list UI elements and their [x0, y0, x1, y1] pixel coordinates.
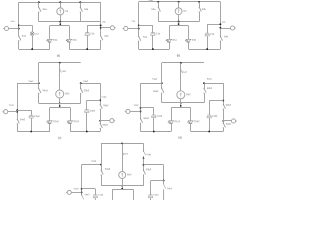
node port V2b (b) — [219, 27, 221, 29]
svg-text:S4b: S4b — [224, 36, 229, 38]
wire stub rail3 to box (c) — [59, 103, 61, 107]
wire box right side (c) — [70, 108, 72, 119]
node rail3 / source (d) — [180, 102, 182, 104]
wire top rail (c) — [39, 62, 81, 64]
switch S1b2 upper — [100, 103, 110, 111]
node port V1b1 (d) — [222, 120, 224, 122]
switch S1a — [18, 32, 26, 50]
label V2b — [222, 22, 227, 24]
switch I1a2 — [60, 63, 67, 73]
svg-text:S4b: S4b — [104, 36, 109, 38]
node top rail / S2b (a) — [79, 1, 81, 3]
lamp L1a — [30, 25, 39, 49]
current source I2a3 — [119, 156, 132, 186]
capacitor C1b1 — [205, 24, 215, 49]
switch S4a2 — [17, 115, 26, 132]
switch S4a1 (d) — [140, 114, 150, 132]
svg-text:S2b: S2b — [84, 9, 89, 11]
wire left vertical (a) — [18, 2, 20, 31]
switch S2a — [38, 2, 47, 22]
switch S1b3 — [143, 143, 152, 158]
wire box right side (a) — [69, 26, 71, 38]
wire bottom rail left (a) — [19, 49, 50, 51]
node rail2 / S2b1 (d) — [203, 82, 205, 84]
node cap wire right (b) — [219, 23, 221, 25]
node rail2 / S2b2 (c) — [80, 82, 82, 84]
switch S2b1 — [199, 2, 207, 22]
node cap right bottom (c) — [86, 131, 88, 133]
wire box left side (c) — [49, 108, 51, 119]
node box top (a) — [59, 23, 61, 25]
svg-text:S1a3: S1a3 — [91, 161, 97, 163]
switch I1a1 (d) — [181, 63, 188, 74]
wire left vertical (b) — [138, 2, 140, 32]
label top rail clipped (b) — [148, 0, 154, 2]
svg-text:C1a3: C1a3 — [98, 195, 104, 197]
node port V1a (a) — [18, 28, 20, 30]
wire S2a2 top stub (c) — [38, 63, 40, 83]
node top rail / source (d) — [180, 62, 182, 64]
wire box top (a) — [50, 25, 70, 27]
wire to capacitor C1b1 (b) — [207, 24, 220, 26]
wire middle rail (b) — [158, 21, 199, 23]
svg-text:S4b3: S4b3 — [167, 188, 173, 190]
switch S1b1 upper (d) — [223, 103, 232, 112]
label S1a1 (d) — [152, 79, 158, 81]
svg-text:S2a3: S2a3 — [105, 169, 111, 171]
wire rail2 left (c) — [17, 83, 39, 85]
wire stub to rail2 right (e) — [143, 159, 145, 166]
wire stub rail3 to box (e) — [122, 186, 124, 190]
port V1b1 — [223, 119, 236, 123]
wire port stub (c) — [100, 111, 102, 122]
capacitor C1b1 (d) — [207, 101, 218, 132]
wire box top (d) — [171, 107, 191, 109]
switch S4b1 — [220, 32, 229, 49]
svg-text:S1a2: S1a2 — [28, 81, 34, 83]
wire to capacitor C1b (a) — [87, 25, 101, 27]
switch S4b2 — [100, 122, 109, 132]
wire right vertical (d) — [223, 83, 225, 102]
node port V1a3 (e) — [81, 191, 83, 193]
label V1a1 (d) — [134, 105, 140, 107]
wire to capacitor C1b3 (e) — [151, 180, 164, 182]
wire to capacitor C1a1 (b) — [139, 25, 153, 27]
node box top (b) — [178, 23, 180, 25]
LED D1a1 (d) — [168, 119, 181, 132]
switch I1a3 — [122, 143, 128, 156]
svg-text:S1b3: S1b3 — [146, 154, 152, 156]
label S1b1 (d) — [207, 79, 213, 81]
wire top rail (b) — [139, 1, 221, 3]
wire S2a1 stub (d) — [161, 63, 163, 83]
switch S4b — [100, 31, 109, 49]
wire rail2 right (e) — [144, 164, 164, 166]
svg-text:S2b2: S2b2 — [207, 88, 213, 90]
svg-text:S2a: S2a — [43, 9, 48, 11]
node cap wire right (d) — [222, 100, 224, 102]
wire rail2 left (d) — [141, 83, 162, 85]
label S1b2 — [83, 81, 89, 83]
port V1b2 — [100, 119, 115, 123]
wire left vertical (e) — [81, 165, 83, 194]
svg-text:S4a2: S4a2 — [20, 119, 26, 121]
wire rail2 left (e) — [82, 164, 102, 166]
svg-text:D1b2: D1b2 — [194, 121, 200, 123]
capacitor C1b — [85, 25, 95, 49]
label V2a — [131, 21, 136, 23]
node cap left bottom (d) — [153, 131, 155, 133]
wire right vertical (e) — [163, 165, 165, 181]
svg-text:S2b: S2b — [202, 9, 207, 11]
node rail2 / S2a1 (d) — [161, 82, 163, 84]
switch S2b3 — [143, 166, 152, 184]
node cap wire right (e) — [163, 180, 165, 182]
port V1a2 — [2, 110, 17, 114]
svg-text:C1a2: C1a2 — [157, 116, 163, 118]
label S1a3 — [91, 161, 97, 163]
capacitor C1a1 — [151, 25, 161, 49]
wire box right side (b) — [188, 26, 190, 37]
LED D1a2 — [47, 119, 60, 132]
label V1b — [102, 22, 107, 24]
svg-text:S4a3: S4a3 — [84, 194, 90, 196]
wire to capacitor C1a3 (e) — [82, 188, 96, 190]
node rail2 / S2a2 (c) — [38, 82, 40, 84]
svg-text:S1a2: S1a2 — [152, 79, 158, 81]
wire right vertical (b) — [220, 2, 222, 32]
port V2b — [220, 26, 235, 30]
wire box left side (e) — [112, 189, 114, 200]
node port V2a (b) — [138, 28, 140, 30]
port V1a3 — [66, 190, 82, 194]
node middle rail / I1a1 (b) — [178, 21, 180, 23]
svg-text:(c): (c) — [58, 136, 61, 140]
wire box left side (a) — [49, 26, 51, 38]
svg-text:S1b2: S1b2 — [83, 81, 89, 83]
label V1a2 — [9, 105, 15, 107]
switch S2b2 — [80, 83, 90, 103]
port V2a — [123, 26, 139, 30]
switch S4a3 — [81, 193, 90, 199]
port V1a1 — [125, 109, 141, 113]
wire box left side (b) — [169, 26, 171, 37]
svg-text:S2a2: S2a2 — [153, 91, 159, 93]
wire port stub (d) — [223, 112, 225, 121]
wire box left side (d) — [171, 108, 173, 119]
wire rail3 (c) — [39, 103, 81, 105]
svg-text:I2a2: I2a2 — [65, 93, 70, 95]
wire box top (e) — [112, 189, 133, 191]
LED D1b1 — [185, 37, 196, 49]
node middle rail / I1a (a) — [59, 21, 61, 23]
wire bottom rail right (b) — [189, 49, 221, 51]
node cap wire right (a) — [100, 24, 102, 26]
LED D1b2 — [67, 119, 80, 132]
wire to capacitor C1b2 (c) — [87, 100, 100, 102]
wire rail2 right (c) — [81, 83, 101, 85]
wire rail3 (d) — [162, 102, 204, 104]
svg-text:S2a: S2a — [151, 9, 156, 11]
svg-text:D1b: D1b — [73, 40, 78, 42]
svg-text:S2b4: S2b4 — [226, 105, 232, 107]
svg-text:V1a3: V1a3 — [74, 188, 80, 190]
wire to capacitor C1b1 (d) — [209, 100, 223, 102]
svg-text:C1b2: C1b2 — [90, 111, 96, 113]
switch S2b1 (d) — [203, 83, 212, 103]
current source I2a2 — [56, 73, 70, 103]
node box top (c) — [59, 105, 61, 107]
node rail2 / S2b3 (e) — [143, 164, 145, 166]
wire stub source to box (b) — [178, 22, 180, 26]
wire right vertical (c) — [100, 83, 102, 103]
capacitor C1b2 — [85, 100, 96, 131]
node box top (e) — [121, 188, 123, 190]
svg-text:S1a: S1a — [143, 37, 148, 39]
node cap right bottom (b) — [206, 48, 208, 50]
wire rail3 right stub (e) — [143, 183, 145, 185]
wire S2a3 stub (e) — [101, 143, 103, 164]
wire right vertical (a) — [100, 2, 102, 31]
node top rail / I1a1 (b) — [178, 1, 180, 3]
node port V1a1 (d) — [140, 110, 142, 112]
caption (b) — [177, 53, 181, 57]
svg-text:I2a3: I2a3 — [127, 174, 132, 176]
switch S4b3 — [164, 181, 173, 200]
svg-text:S1b2: S1b2 — [207, 79, 213, 81]
svg-text:C1b3: C1b3 — [153, 195, 159, 197]
svg-text:C1b: C1b — [90, 33, 95, 35]
caption (c) — [58, 136, 61, 140]
svg-text:S2b3: S2b3 — [146, 169, 152, 171]
capacitor C1a3 — [93, 189, 104, 200]
svg-text:C1b1: C1b1 — [212, 116, 218, 118]
svg-text:C1b: C1b — [210, 34, 215, 36]
current source I2a1 (d) — [177, 74, 191, 103]
wire top rail (a) — [19, 2, 101, 4]
label V1a — [11, 21, 16, 23]
svg-text:V1a2: V1a2 — [9, 105, 15, 107]
svg-text:D1a2: D1a2 — [53, 121, 59, 123]
switch S1a1 — [138, 32, 148, 49]
switch S2a1 — [151, 2, 160, 22]
svg-text:D1b2: D1b2 — [73, 121, 79, 123]
wire top rail (e) — [101, 143, 143, 145]
port V1a — [3, 26, 19, 30]
capacitor C1b3 — [148, 181, 159, 200]
LED D1b — [66, 37, 77, 49]
svg-text:D1a2: D1a2 — [174, 121, 180, 123]
node lamp bottom (a) — [31, 48, 33, 50]
node cap right bottom (d) — [208, 131, 210, 133]
wire rail2 right (d) — [204, 83, 223, 85]
switch S4b1 (d) — [223, 121, 232, 132]
wire stub source to box (a) — [60, 22, 62, 26]
svg-text:(a): (a) — [57, 53, 61, 57]
node port V1a2 (c) — [16, 111, 18, 113]
svg-text:D1b: D1b — [192, 40, 197, 42]
node port V1b2 (c) — [99, 120, 101, 122]
wire bottom rail left (d) — [141, 131, 172, 133]
caption (a) — [57, 53, 61, 57]
node top rail / S2a (a) — [38, 1, 40, 3]
label V1a3 — [74, 188, 80, 190]
caption (d) — [178, 135, 182, 139]
node cap wire right (c) — [99, 99, 101, 101]
node S1b3 bottom (e) — [143, 157, 145, 159]
svg-text:V1a2: V1a2 — [134, 105, 140, 107]
svg-text:S2b2: S2b2 — [84, 90, 90, 92]
switch S2a2 — [38, 83, 48, 103]
node top rail / source (e) — [121, 142, 123, 144]
switch S2a3 — [101, 165, 111, 186]
capacitor C1a1 (d) — [152, 108, 163, 132]
LED D1a — [47, 37, 58, 49]
svg-text:C1a: C1a — [156, 33, 161, 35]
svg-text:S1a1: S1a1 — [148, 0, 154, 2]
svg-text:S2b2: S2b2 — [103, 105, 109, 107]
wire top rail (d) — [162, 62, 204, 64]
svg-text:C1a2: C1a2 — [34, 116, 40, 118]
svg-text:S4a2: S4a2 — [143, 118, 149, 120]
svg-text:D1a: D1a — [53, 40, 58, 42]
wire rail3 (e) — [101, 185, 143, 187]
wire bottom rail right (a) — [69, 49, 100, 51]
node top rail / S2b1 (b) — [198, 1, 200, 3]
node cap branch (c) — [16, 109, 18, 111]
node port V1b (a) — [100, 27, 102, 29]
wire to capacitor C1a2 (c) — [17, 110, 31, 112]
wire to capacitor C1a1 (d) — [141, 107, 154, 109]
wire middle rail (a) — [39, 21, 101, 23]
svg-text:S1a: S1a — [22, 36, 27, 38]
wire stub rail3 to box (d) — [180, 103, 182, 108]
capacitor C1a2 — [29, 110, 40, 131]
wire box right side (e) — [133, 189, 135, 200]
wire to lamp (a) — [19, 25, 32, 27]
node rail2 / S2a3 (e) — [100, 164, 102, 166]
wire left vertical (c) — [17, 83, 19, 115]
svg-text:(d): (d) — [178, 135, 182, 139]
node top rail / I1a (a) — [59, 1, 61, 3]
node cap left bottom (c) — [30, 131, 32, 133]
wire bottom rail right (c) — [70, 131, 100, 133]
LED D1b1 (d) — [188, 119, 201, 132]
node rail3 / source (c) — [59, 102, 61, 104]
wire box top (c) — [50, 107, 70, 109]
port V1b — [101, 26, 116, 30]
wire box right side (d) — [190, 108, 192, 119]
svg-text:(b): (b) — [177, 53, 181, 57]
wire bottom rail left (b) — [139, 49, 170, 51]
svg-text:D1a: D1a — [172, 40, 177, 42]
node cap branch (d) — [140, 107, 142, 109]
svg-text:V1b2: V1b2 — [101, 97, 107, 99]
wire bottom rail left (c) — [17, 131, 50, 133]
node cap left bottom (b) — [152, 48, 154, 50]
current source I1a — [57, 2, 69, 22]
wire bottom rail right (d) — [191, 131, 224, 133]
wire box top (b) — [169, 25, 188, 27]
node rail3 / source (e) — [121, 185, 123, 187]
node top rail / S2a1 (b) — [157, 1, 159, 3]
node cap bottom (a) — [86, 48, 88, 50]
node cap branch (e) — [81, 188, 83, 190]
switch S2b — [80, 2, 89, 22]
switch S2a1 (d) — [153, 83, 164, 103]
node top rail / source (c) — [59, 62, 61, 64]
label S1a2 — [28, 81, 34, 83]
node lamp branch (a) — [18, 25, 20, 27]
label V1b2 — [101, 97, 107, 99]
svg-text:I2a2: I2a2 — [186, 94, 191, 96]
svg-text:S4b2: S4b2 — [102, 125, 108, 127]
node box top (d) — [180, 105, 182, 107]
current source I1a1 — [175, 2, 187, 22]
node cap branch (b) — [138, 25, 140, 27]
wire left vertical (d) — [140, 83, 142, 114]
svg-text:S4b1: S4b1 — [226, 124, 232, 126]
LED D1a1 — [166, 37, 177, 49]
svg-text:S2a2: S2a2 — [42, 90, 48, 92]
